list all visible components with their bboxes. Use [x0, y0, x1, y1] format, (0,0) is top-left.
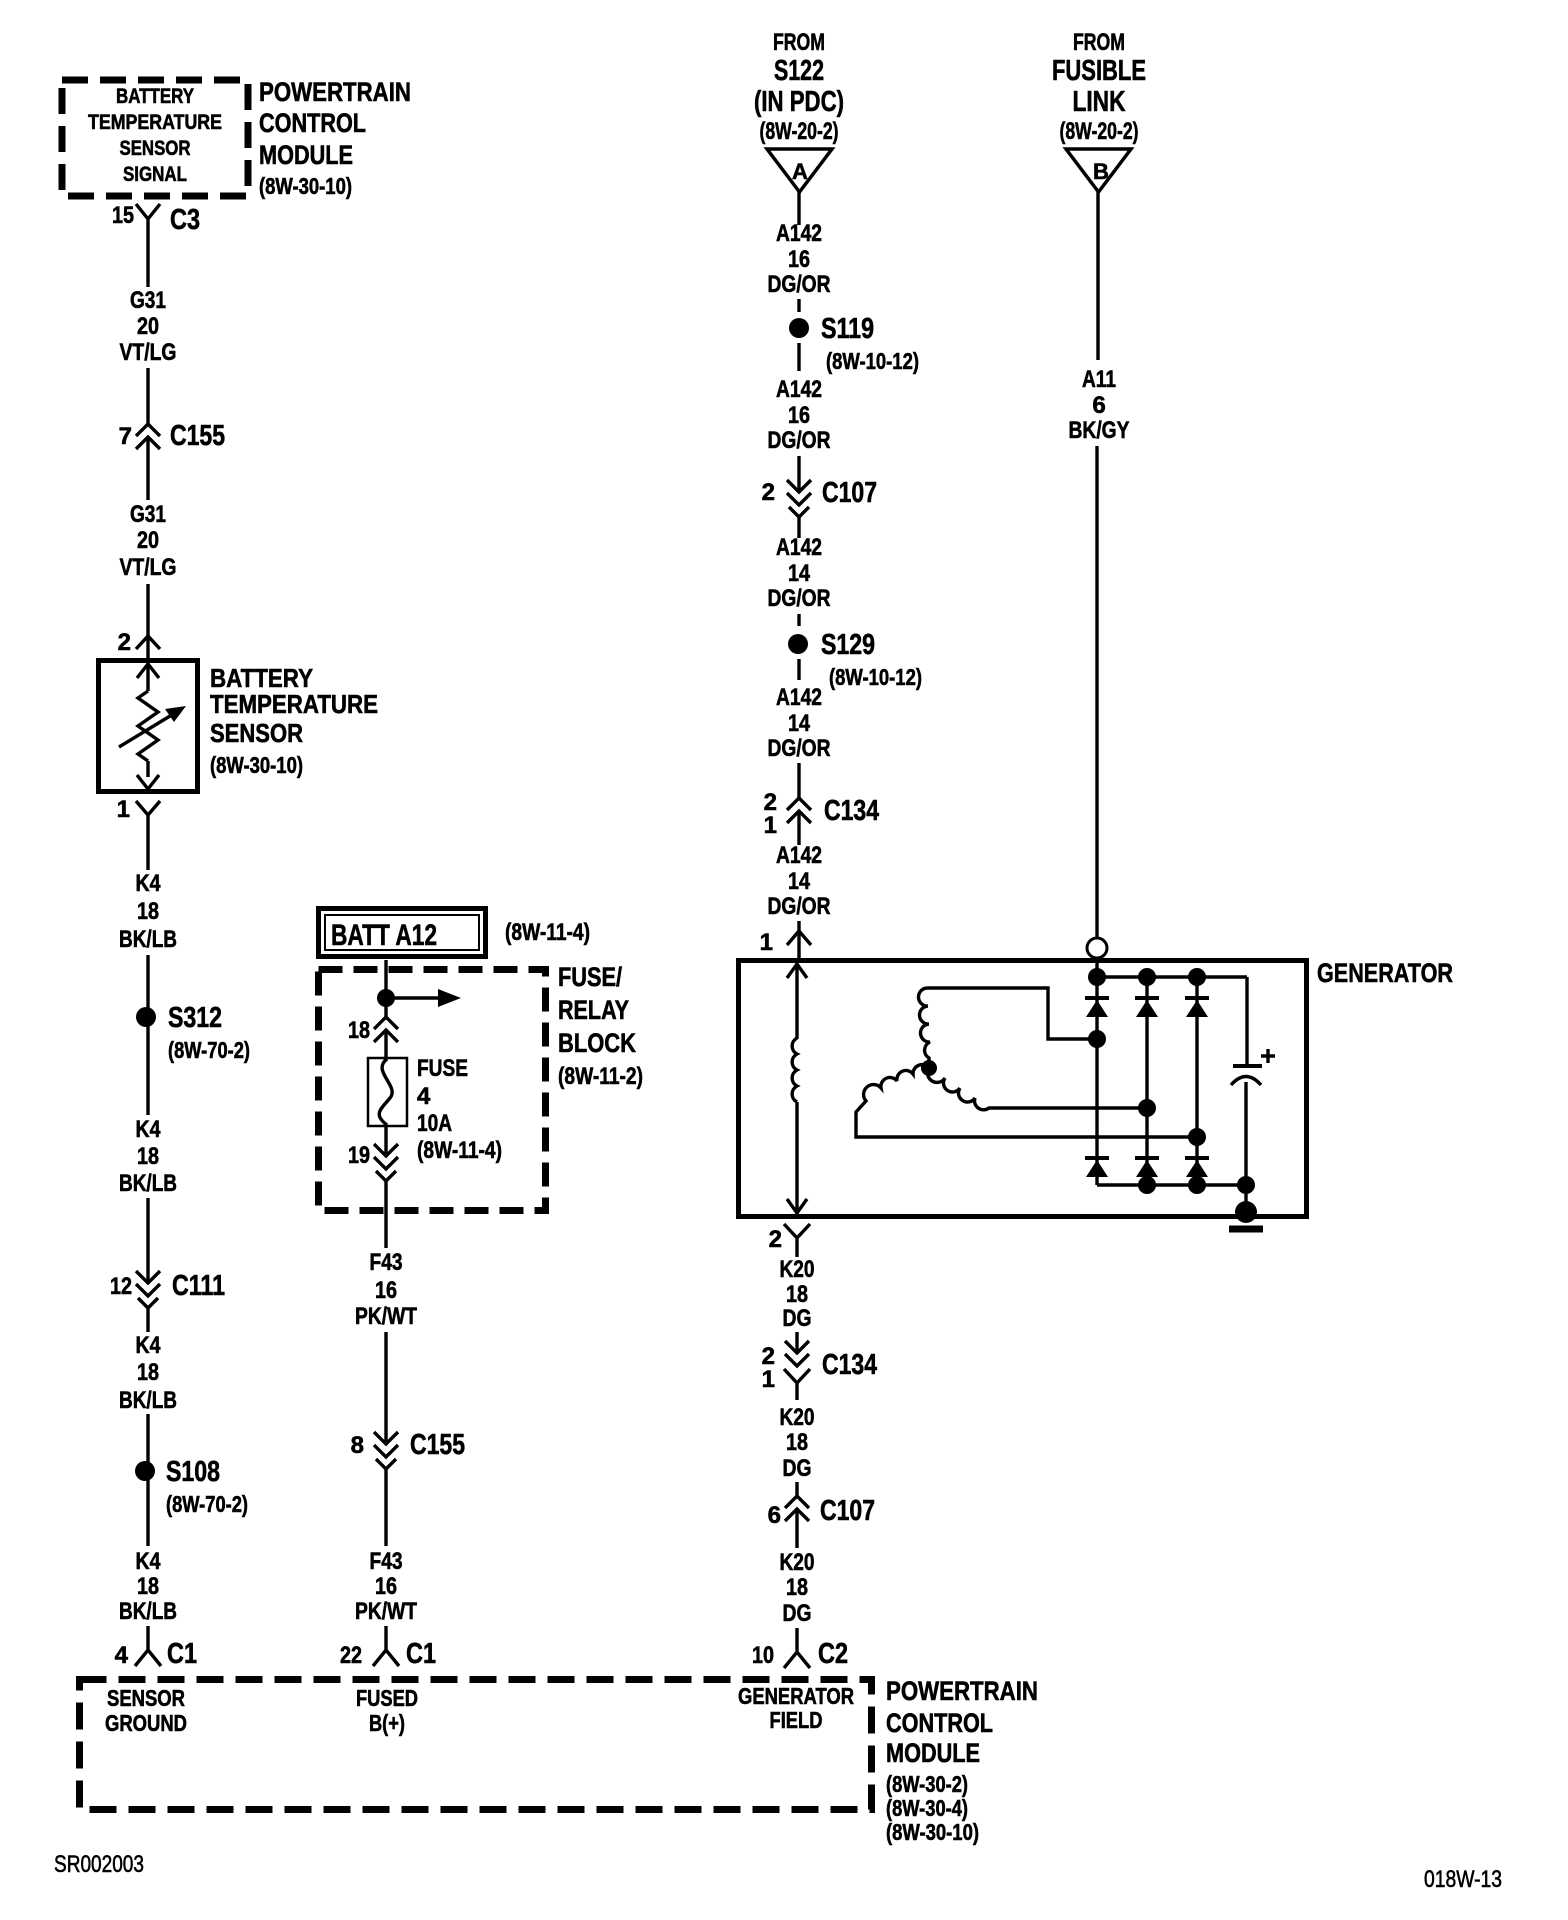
svg-text:PK/WT: PK/WT: [355, 1303, 417, 1330]
svg-text:(8W-11-4): (8W-11-4): [417, 1137, 502, 1164]
svg-text:BATT A12: BATT A12: [331, 919, 437, 952]
wire label A142 14 DG/OR (5): [768, 842, 831, 920]
pin 19 chevrons (double down): [374, 1144, 398, 1181]
label FROM FUSIBLE LINK (8W-20-2): [1052, 29, 1146, 145]
svg-text:FUSED: FUSED: [356, 1685, 418, 1711]
wire K4 seg1: [146, 833, 149, 870]
svg-text:(8W-11-4): (8W-11-4): [505, 919, 590, 946]
wire A142 seg5: [797, 811, 800, 845]
wire F43 seg2: [384, 1332, 387, 1445]
svg-text:(8W-70-2): (8W-70-2): [166, 1491, 248, 1517]
rectifier bottom bus: [1097, 1176, 1255, 1194]
connector C134 down chevrons + Y: [784, 1341, 810, 1400]
svg-text:20: 20: [137, 313, 159, 340]
svg-text:TEMPERATURE: TEMPERATURE: [88, 111, 222, 134]
wire label A142 16 DG/OR (1): [768, 220, 831, 298]
pin 1 chevron into generator: [787, 921, 811, 958]
wire label K4 18 BK/LB (3): [119, 1332, 177, 1414]
svg-text:DG: DG: [783, 1305, 812, 1332]
svg-text:BK/LB: BK/LB: [119, 926, 177, 953]
thermistor symbol: [119, 661, 186, 791]
wire label K4 18 BK/LB (1): [119, 870, 177, 953]
diode D2 top: [1135, 998, 1159, 1017]
capacitor C: [1231, 1066, 1262, 1085]
svg-text:CONTROL: CONTROL: [886, 1708, 993, 1738]
wire G31 seg1: [146, 238, 149, 287]
svg-text:A11: A11: [1082, 366, 1116, 393]
svg-text:1: 1: [764, 812, 777, 839]
wire K20 seg2: [795, 1482, 798, 1496]
svg-text:K20: K20: [780, 1404, 815, 1431]
svg-text:1: 1: [762, 1366, 775, 1393]
capacitor + label: [1261, 1049, 1275, 1063]
svg-text:C134: C134: [822, 1349, 877, 1381]
svg-text:BK/LB: BK/LB: [119, 1387, 177, 1414]
rectifier leg 1: [1095, 977, 1098, 1185]
fuse 4 box: [368, 1058, 407, 1126]
wire A142 seg1: [797, 192, 800, 225]
svg-text:20: 20: [137, 527, 159, 554]
wire label K20 18 DG (2): [780, 1404, 815, 1482]
connector C107 (2) chevrons down: [787, 480, 811, 517]
wire stub above S129: [797, 614, 800, 626]
diode D6 bottom: [1185, 1158, 1209, 1177]
pin 2 Y symbol below generator: [784, 1224, 810, 1257]
svg-text:7: 7: [119, 423, 132, 450]
connector C3 pin symbol (Y): [136, 204, 160, 238]
generator B+ terminal circle: [1087, 938, 1107, 958]
svg-text:14: 14: [788, 710, 811, 737]
svg-text:DG: DG: [783, 1455, 812, 1482]
svg-text:A142: A142: [776, 376, 822, 403]
svg-text:18: 18: [348, 1017, 370, 1044]
junction leg2/stator: [1138, 1099, 1156, 1117]
svg-text:K20: K20: [780, 1256, 815, 1283]
capacitor branch wire: [1246, 977, 1247, 1185]
off-page triangle A: [767, 149, 832, 192]
rectifier leg 3: [1195, 977, 1198, 1185]
svg-text:(8W-20-2): (8W-20-2): [760, 118, 839, 145]
wire label K20 18 DG (1): [780, 1256, 815, 1332]
pin 18 chevrons (double up): [374, 1017, 398, 1042]
svg-text:FROM: FROM: [773, 29, 825, 56]
svg-text:(8W-11-2): (8W-11-2): [558, 1063, 643, 1090]
svg-text:8: 8: [351, 1432, 364, 1459]
svg-text:TEMPERATURE: TEMPERATURE: [210, 689, 378, 719]
connector C155 symbol (double chevron up): [136, 424, 160, 449]
label FUSED B(+): [356, 1685, 418, 1736]
svg-text:S129: S129: [821, 629, 875, 661]
splice S119: [789, 318, 809, 338]
svg-text:MODULE: MODULE: [886, 1738, 980, 1768]
pin 1 Y symbol: [136, 801, 160, 833]
svg-text:(8W-30-4): (8W-30-4): [886, 1795, 968, 1821]
rectifier top bus: [1088, 958, 1247, 986]
svg-text:18: 18: [786, 1281, 808, 1308]
svg-text:C107: C107: [822, 477, 877, 509]
field winding branch: [787, 961, 807, 1214]
svg-text:16: 16: [375, 1277, 397, 1304]
svg-text:10A: 10A: [417, 1110, 452, 1137]
wire label A11 6 BK/GY: [1069, 366, 1130, 444]
svg-text:DG/OR: DG/OR: [768, 735, 831, 762]
PCM battery-temp-sensor-signal dashed box: [62, 80, 248, 196]
wire F43 seg1: [384, 1181, 387, 1248]
label SENSOR GROUND: [105, 1685, 187, 1736]
svg-text:FIELD: FIELD: [770, 1707, 823, 1733]
svg-text:C3: C3: [170, 204, 200, 236]
svg-text:(8W-70-2): (8W-70-2): [168, 1037, 250, 1063]
wire label F43 16 PK/WT (2): [355, 1548, 417, 1625]
svg-text:2: 2: [118, 629, 131, 656]
svg-text:PK/WT: PK/WT: [355, 1598, 417, 1625]
svg-text:C2: C2: [818, 1638, 848, 1670]
junction dot: [377, 989, 395, 1007]
svg-text:14: 14: [788, 868, 811, 895]
svg-text:BATTERY: BATTERY: [116, 85, 194, 108]
svg-text:F43: F43: [370, 1249, 403, 1276]
svg-text:RELAY: RELAY: [558, 995, 629, 1025]
label GENERATOR FIELD: [738, 1683, 854, 1733]
svg-text:18: 18: [137, 1359, 159, 1386]
wire A11 seg1: [1096, 192, 1099, 360]
PCM bottom dashed box: [80, 1680, 872, 1810]
wire K20 seg1: [795, 1332, 798, 1354]
svg-text:15: 15: [112, 202, 134, 229]
svg-text:GENERATOR: GENERATOR: [1317, 958, 1453, 988]
svg-text:FROM: FROM: [1073, 29, 1125, 56]
svg-text:S122: S122: [774, 55, 824, 87]
svg-text:1: 1: [117, 796, 130, 823]
svg-text:C1: C1: [167, 1638, 197, 1670]
svg-text:C1: C1: [406, 1638, 436, 1670]
splice S312: [136, 1007, 156, 1027]
svg-text:C155: C155: [410, 1429, 465, 1461]
battery temperature sensor box: [99, 661, 198, 792]
svg-text:POWERTRAIN: POWERTRAIN: [259, 77, 411, 107]
svg-text:BK/GY: BK/GY: [1069, 417, 1130, 444]
svg-text:18: 18: [786, 1429, 808, 1456]
svg-text:6: 6: [768, 1502, 781, 1529]
wire label G31 20 VT/LG (1): [120, 287, 177, 366]
wire K20 seg3: [795, 1509, 798, 1548]
splice S108: [135, 1461, 155, 1481]
svg-text:SR002003: SR002003: [54, 1851, 144, 1878]
svg-text:SENSOR: SENSOR: [210, 718, 303, 748]
stator winding (wye): [856, 988, 1193, 1137]
svg-text:4: 4: [417, 1083, 431, 1110]
diode D1 top: [1085, 998, 1109, 1017]
label POWERTRAIN CONTROL MODULE bottom: [886, 1676, 1038, 1845]
svg-text:A142: A142: [776, 534, 822, 561]
wire into fuse: [384, 1030, 387, 1060]
BATT A12 box: [319, 909, 486, 957]
svg-text:CONTROL: CONTROL: [259, 108, 366, 138]
label S129 (8W-10-12): [821, 629, 922, 690]
wire stub below S129: [797, 659, 800, 680]
svg-text:(8W-10-12): (8W-10-12): [829, 664, 922, 690]
svg-text:POWERTRAIN: POWERTRAIN: [886, 1676, 1038, 1706]
svg-text:S119: S119: [821, 313, 874, 345]
junction leg3/stator: [1188, 1128, 1206, 1146]
label: POWERTRAIN CONTROL MODULE (8W-30-10) top: [259, 77, 411, 199]
svg-text:BK/LB: BK/LB: [119, 1170, 177, 1197]
svg-text:VT/LG: VT/LG: [120, 339, 177, 366]
svg-text:A142: A142: [776, 220, 822, 247]
svg-text:BLOCK: BLOCK: [558, 1028, 636, 1058]
svg-text:2: 2: [762, 479, 775, 506]
svg-text:DG: DG: [783, 1600, 812, 1627]
connector C107 (6) chevrons up: [785, 1496, 809, 1521]
diode D3 top: [1185, 998, 1209, 1017]
svg-text:19: 19: [348, 1142, 370, 1169]
svg-text:DG/OR: DG/OR: [768, 427, 831, 454]
svg-text:12: 12: [110, 1273, 132, 1300]
svg-text:A142: A142: [776, 684, 822, 711]
svg-text:B: B: [1093, 159, 1109, 184]
wire A142 seg4: [797, 763, 800, 798]
label: BATTERY TEMPERATURE SENSOR SIGNAL: [88, 85, 222, 186]
wire stub below S119: [797, 343, 800, 371]
wire A11 seg2: [1095, 446, 1098, 938]
svg-text:VT/LG: VT/LG: [120, 554, 177, 581]
pin 22 C1 symbol (inverted Y): [373, 1626, 399, 1666]
fuse/relay block dashed box: [319, 970, 546, 1211]
pin 2 chevron: [136, 636, 160, 649]
arrow to other circuits: [386, 989, 461, 1007]
svg-text:14: 14: [788, 560, 811, 587]
svg-text:C155: C155: [170, 420, 225, 452]
svg-text:18: 18: [786, 1574, 808, 1601]
wire stub above S119: [797, 299, 800, 312]
wire F43 seg3: [384, 1469, 387, 1546]
svg-text:18: 18: [137, 1143, 159, 1170]
svg-text:S108: S108: [166, 1456, 220, 1488]
svg-text:1: 1: [760, 929, 773, 956]
rectifier leg 2: [1145, 977, 1148, 1185]
wire label K20 18 DG (3): [780, 1549, 815, 1627]
svg-text:18: 18: [137, 898, 159, 925]
svg-text:SENSOR: SENSOR: [107, 1685, 185, 1711]
svg-text:LINK: LINK: [1073, 86, 1126, 118]
svg-text:C107: C107: [820, 1495, 875, 1527]
svg-text:C134: C134: [824, 795, 879, 827]
svg-text:BK/LB: BK/LB: [119, 1598, 177, 1625]
pin 4 C1 symbol (inverted Y): [135, 1626, 161, 1666]
wire label A142 16 DG/OR (2): [768, 376, 831, 454]
svg-text:K20: K20: [780, 1549, 815, 1576]
wire label G31 20 VT/LG (2): [120, 501, 177, 581]
wire G31 seg3: [146, 437, 149, 500]
wire label K4 18 BK/LB (2): [119, 1116, 177, 1197]
wire G31 seg2: [146, 368, 149, 424]
svg-text:K4: K4: [136, 1116, 162, 1143]
generator box: [739, 961, 1307, 1217]
wire from BATT A12 into block: [384, 960, 387, 1017]
svg-text:SIGNAL: SIGNAL: [123, 163, 187, 186]
wire label F43 16 PK/WT (1): [355, 1249, 417, 1330]
svg-text:16: 16: [788, 402, 810, 429]
svg-text:K4: K4: [136, 1332, 162, 1359]
svg-text:DG/OR: DG/OR: [768, 585, 831, 612]
case ground: [1229, 1185, 1263, 1229]
label: BATTERY TEMPERATURE SENSOR (8W-30-10): [210, 663, 378, 778]
off-page triangle B: [1066, 149, 1131, 192]
svg-text:22: 22: [340, 1642, 362, 1669]
svg-text:4: 4: [115, 1642, 129, 1669]
svg-text:A142: A142: [776, 842, 822, 869]
wire A142 seg3: [797, 517, 800, 538]
svg-text:G31: G31: [130, 287, 166, 314]
svg-text:GENERATOR: GENERATOR: [738, 1683, 854, 1709]
svg-text:2: 2: [769, 1226, 782, 1253]
svg-text:18: 18: [137, 1573, 159, 1600]
svg-text:018W-13: 018W-13: [1424, 1866, 1502, 1893]
wire K4 seg3: [146, 1198, 149, 1284]
svg-text:FUSE/: FUSE/: [558, 962, 622, 992]
svg-text:(8W-30-10): (8W-30-10): [210, 752, 303, 778]
svg-text:16: 16: [788, 246, 810, 273]
svg-text:DG/OR: DG/OR: [768, 271, 831, 298]
connector C134 chevrons up: [787, 798, 811, 823]
svg-text:B(+): B(+): [369, 1710, 405, 1736]
svg-text:10: 10: [752, 1642, 774, 1669]
svg-text:S312: S312: [168, 1002, 222, 1034]
wire label A142 14 DG/OR (3): [768, 534, 831, 612]
svg-text:(IN PDC): (IN PDC): [754, 86, 844, 118]
svg-text:C111: C111: [172, 1270, 225, 1302]
svg-text:SENSOR: SENSOR: [120, 137, 191, 160]
junction leg1/stator: [1088, 1030, 1106, 1048]
diode D5 bottom: [1135, 1158, 1159, 1177]
svg-text:(8W-30-2): (8W-30-2): [886, 1771, 968, 1797]
wire K4 seg2: [146, 955, 149, 1115]
svg-text:FUSIBLE: FUSIBLE: [1052, 55, 1146, 87]
svg-text:FUSE: FUSE: [417, 1055, 468, 1082]
svg-text:GROUND: GROUND: [105, 1710, 187, 1736]
wire A142 seg2: [797, 456, 800, 493]
svg-text:16: 16: [375, 1573, 397, 1600]
wire label A142 14 DG/OR (4): [768, 684, 831, 762]
label S312 (8W-70-2): [168, 1002, 250, 1063]
wire K4 seg5: [146, 1414, 149, 1546]
label S108 (8W-70-2): [166, 1456, 248, 1517]
svg-text:K4: K4: [136, 870, 162, 897]
svg-text:G31: G31: [130, 501, 166, 528]
svg-text:(8W-30-10): (8W-30-10): [259, 173, 352, 199]
svg-text:A: A: [792, 159, 808, 184]
svg-text:DG/OR: DG/OR: [768, 893, 831, 920]
svg-text:(8W-10-12): (8W-10-12): [826, 348, 919, 374]
wire seg to sensor: [146, 584, 149, 660]
svg-text:(8W-30-10): (8W-30-10): [886, 1819, 979, 1845]
wire K4 seg4: [146, 1308, 149, 1332]
connector C155 (8) chevrons down: [374, 1432, 398, 1469]
fuse element S-curve: [379, 1059, 392, 1125]
svg-text:K4: K4: [136, 1548, 162, 1575]
label S119 (8W-10-12): [821, 313, 919, 374]
label FROM S122 (IN PDC) (8W-20-2): [754, 29, 844, 145]
connector C111 symbol (double chevron down): [136, 1271, 160, 1308]
wire label K4 18 BK/LB (4): [119, 1548, 177, 1625]
svg-text:(8W-20-2): (8W-20-2): [1060, 118, 1139, 145]
svg-text:6: 6: [1092, 392, 1105, 419]
svg-text:MODULE: MODULE: [259, 140, 353, 170]
pin 10 C2 symbol (inverted Y): [784, 1628, 810, 1668]
splice S129: [788, 634, 808, 654]
svg-text:F43: F43: [370, 1548, 403, 1575]
label FUSE 4 10A (8W-11-4): [417, 1055, 502, 1164]
wire below fuse: [384, 1126, 387, 1157]
label FUSE/RELAY BLOCK (8W-11-2): [558, 962, 643, 1090]
diode D4 bottom: [1085, 1158, 1109, 1177]
